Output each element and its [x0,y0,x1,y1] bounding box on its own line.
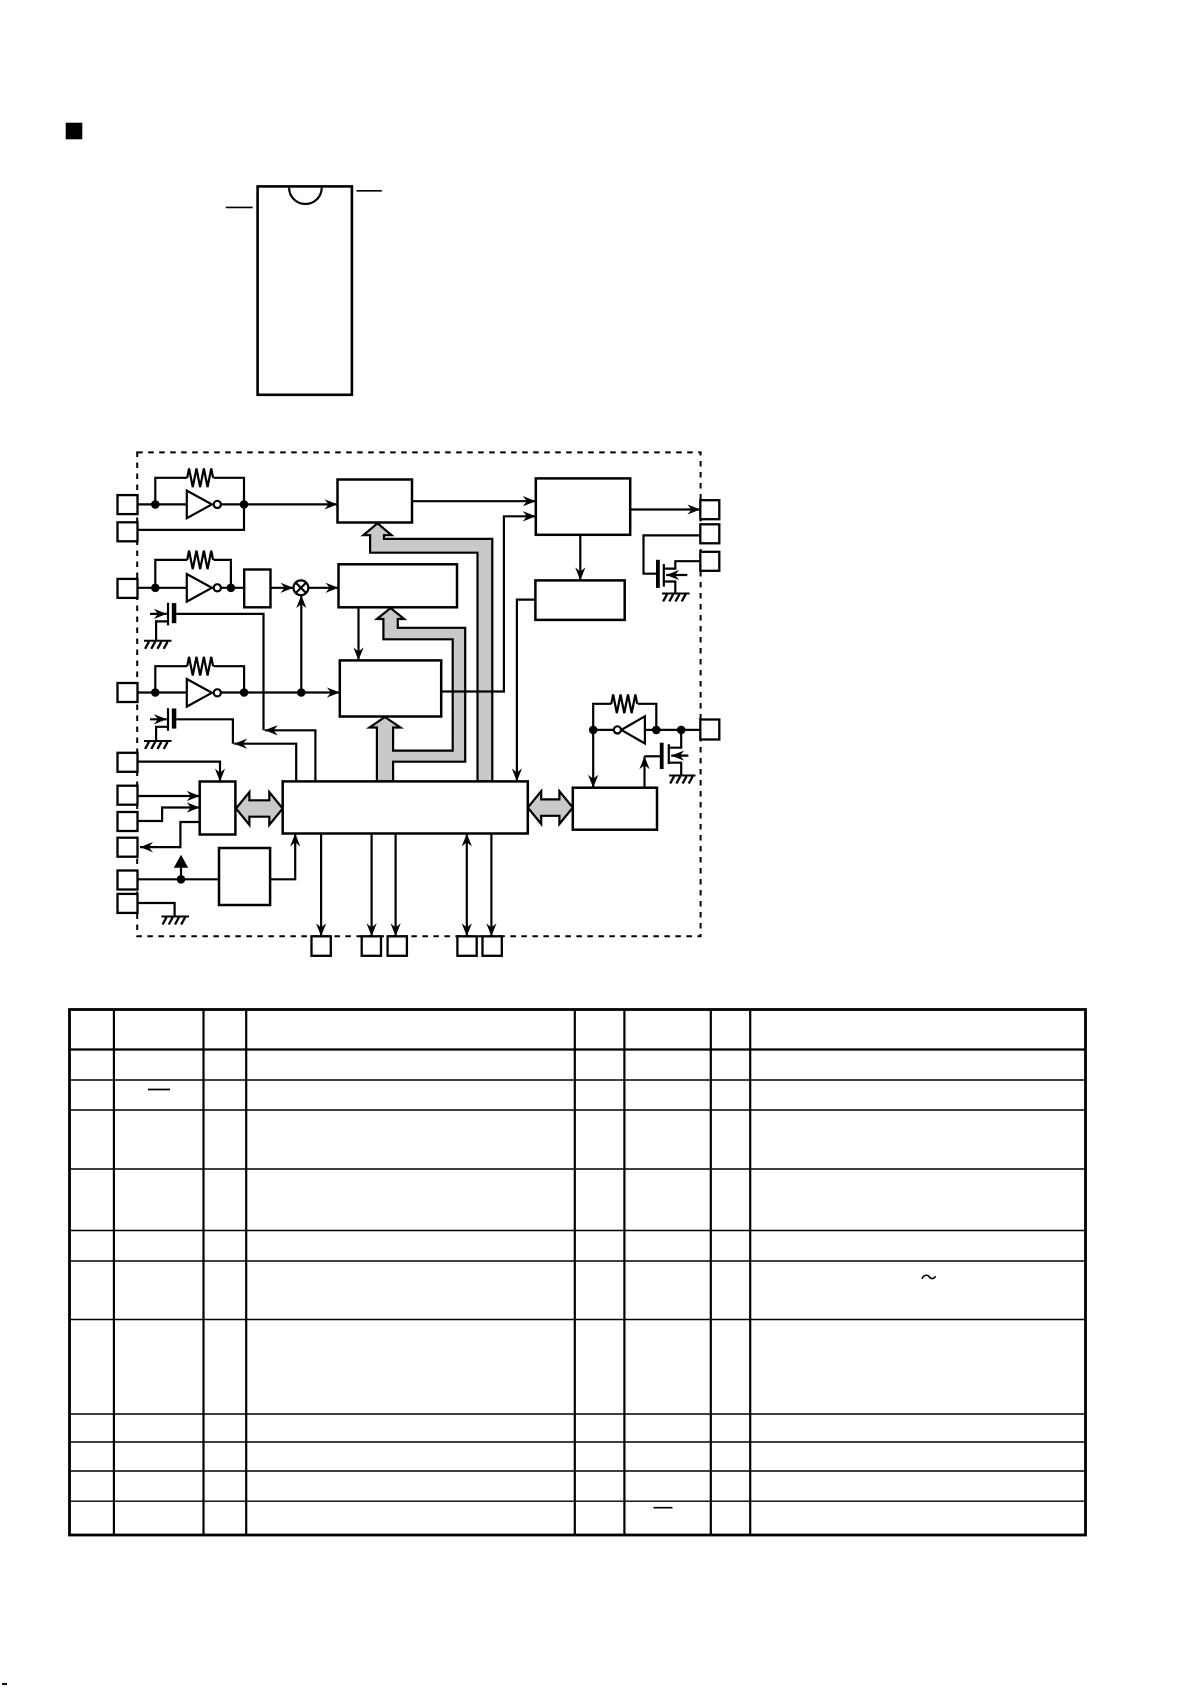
wire Q3 drain to pin RP3 [664,561,701,568]
pin RP1 [700,500,719,519]
wire pin RP2 to Q3 gate [644,535,701,573]
wire pin P9 to B8 [138,878,220,880]
arrow B6 to pin BP2 [371,834,373,937]
pin P2 [118,522,138,541]
mixer X1 [294,580,309,595]
wire Q2 gate control [176,719,233,743]
wire Q4 source to ground [669,763,681,776]
pin P7 [118,812,138,831]
arrow pin P6 to B7 [138,795,200,797]
pin P3 [118,579,138,598]
wire Q3 source to ground [664,582,676,594]
double arrow B6 to pin BP4 [466,834,468,937]
wire Q1 gate control [176,614,263,730]
inverter U2 [187,491,221,519]
package label leader line left [226,206,253,208]
block B7 left interface [200,782,236,835]
tilde mark in table cell [922,1275,936,1279]
wire U5 output to node [593,729,614,731]
ground G3 [162,917,190,925]
block B4 top right [536,478,630,534]
transistor Q4 [660,743,669,769]
bus arrow to block B1 [363,523,492,781]
arrow B1 to B4 [412,500,536,502]
node osc2 output [227,584,236,593]
pin P8 [118,838,138,857]
node osc3 input [151,688,160,697]
resistor R4 feedback [593,695,637,730]
block B9 bottom right [573,788,657,830]
block B6 central bus register [283,781,528,833]
transistor Q2 plates [168,708,176,731]
arrow B2 down to B3 [357,607,359,660]
transistor Q1 (osc2 switch) body arrow [150,613,167,615]
arrow B6 to pin BP1 [320,834,322,937]
wire B8 to B6 (arrow up) [270,834,295,880]
pin RP2 [700,524,719,543]
section heading marker [66,123,83,140]
data bus arrow between B7 and B6 [236,792,283,825]
overline mark in table cell (pin name) [148,1089,170,1091]
inverter U3 [187,574,221,602]
wire Q1 source to ground [156,621,168,640]
pin P6 [118,786,138,805]
node osc1 input [151,500,160,509]
wire U4 output to B3 (arrow) [221,691,340,693]
pin BP3 [388,936,407,956]
wire pin RP4 to inverter U5 input [645,729,700,731]
arrow divider to mixer [271,587,294,589]
block B1 [338,480,413,523]
resistor R1 feedback [155,469,213,505]
wire pin P4 to inverter U4 input [138,691,187,693]
block B2a divider [244,570,270,608]
wire R4 right leg [638,704,657,730]
node osc3 mixer tap [297,688,306,697]
page corner mark [2,1683,7,1685]
pin function table grid [70,1010,1086,1536]
arrow B4 to pin RP1 [630,508,700,510]
pin BP1 [312,936,331,956]
Q4 body arrow [671,754,688,756]
ground G4 [669,776,695,784]
ground G5 [662,594,690,602]
node U5 output [589,726,598,735]
wire pin P7 to B7 [138,808,200,822]
node osc1 output [240,500,249,509]
ground G2 [144,741,172,749]
pin P4 [118,683,138,702]
inverter U4 [187,679,221,707]
resistor R2 feedback [155,551,213,588]
supply arrow up [174,855,188,880]
wire pin P5 to B7 top [138,762,221,782]
arrow B6 control to Q1 gate [265,730,316,781]
wire R1 to pin P2 [138,478,245,530]
pin P1 [118,495,138,514]
transistor Q1 plates [168,603,176,626]
pin RP3 [700,552,719,571]
pin P10 [118,894,138,913]
arrow node down to B9 [592,730,594,788]
pin BP5 [483,936,502,956]
block B8 below [219,848,270,905]
data bus arrow between B6 and B9 [528,791,573,824]
arrow B4 down to B5 [579,535,581,581]
inverter U5 (points left) [614,716,645,743]
node osc3 output [240,688,249,697]
wire R3 right leg [214,666,245,692]
wire B5 to B6 (arrow down) [517,600,536,782]
node Q4 drain tap [677,726,686,735]
wire pin P1 to inverter U2 input [138,503,187,505]
wire B3 to B4 second input [441,516,536,691]
block B5 mid right [535,580,624,620]
arrow B9 up to Q4 gate [645,756,660,787]
resistor R3 feedback [155,657,213,693]
ground G1 [144,641,172,649]
arrow osc1 to B1 [244,503,338,505]
wire U3 output to divider box [221,587,244,589]
pin BP4 [457,936,476,956]
arrow mixer to B2 [308,587,338,589]
Q3 body arrow [666,574,687,576]
wire B7 to pin P8 [140,822,200,847]
block B3 [340,660,441,716]
node R4 tap [652,726,661,735]
arrow B6 to pin BP3 [395,834,397,937]
wire Q2 source to ground [156,727,168,741]
transistor Q2 (osc3 switch) body arrow [150,718,167,720]
node P9 supply tap [177,875,186,884]
wire Q4 drain to node [669,730,681,748]
pin BP2 [362,936,381,956]
IC internal block boundary (dashed) [137,452,700,936]
block B2 [339,564,458,607]
arrow B6 control to Q2 gate [234,744,296,782]
IC package U1 DIP outline [258,186,352,394]
wire U2 output to node [221,503,244,505]
wire pin P3 to inverter U3 input [138,587,187,589]
package label leader line right [357,190,382,192]
pin P9 [118,871,138,890]
pin P5 [118,753,138,772]
wire R2 right leg [214,560,231,588]
node osc2 input [151,584,160,593]
arrow osc3 tap up to mixer [300,595,302,692]
wire pin P10 to ground [138,903,175,917]
overline mark in table cell right (pin name) [654,1507,673,1509]
pin RP4 [700,720,719,740]
arrow B6 to pin BP5 [490,834,492,937]
transistor Q3 [656,560,664,588]
bus arrow to blocks B2 and B3 [370,608,466,781]
